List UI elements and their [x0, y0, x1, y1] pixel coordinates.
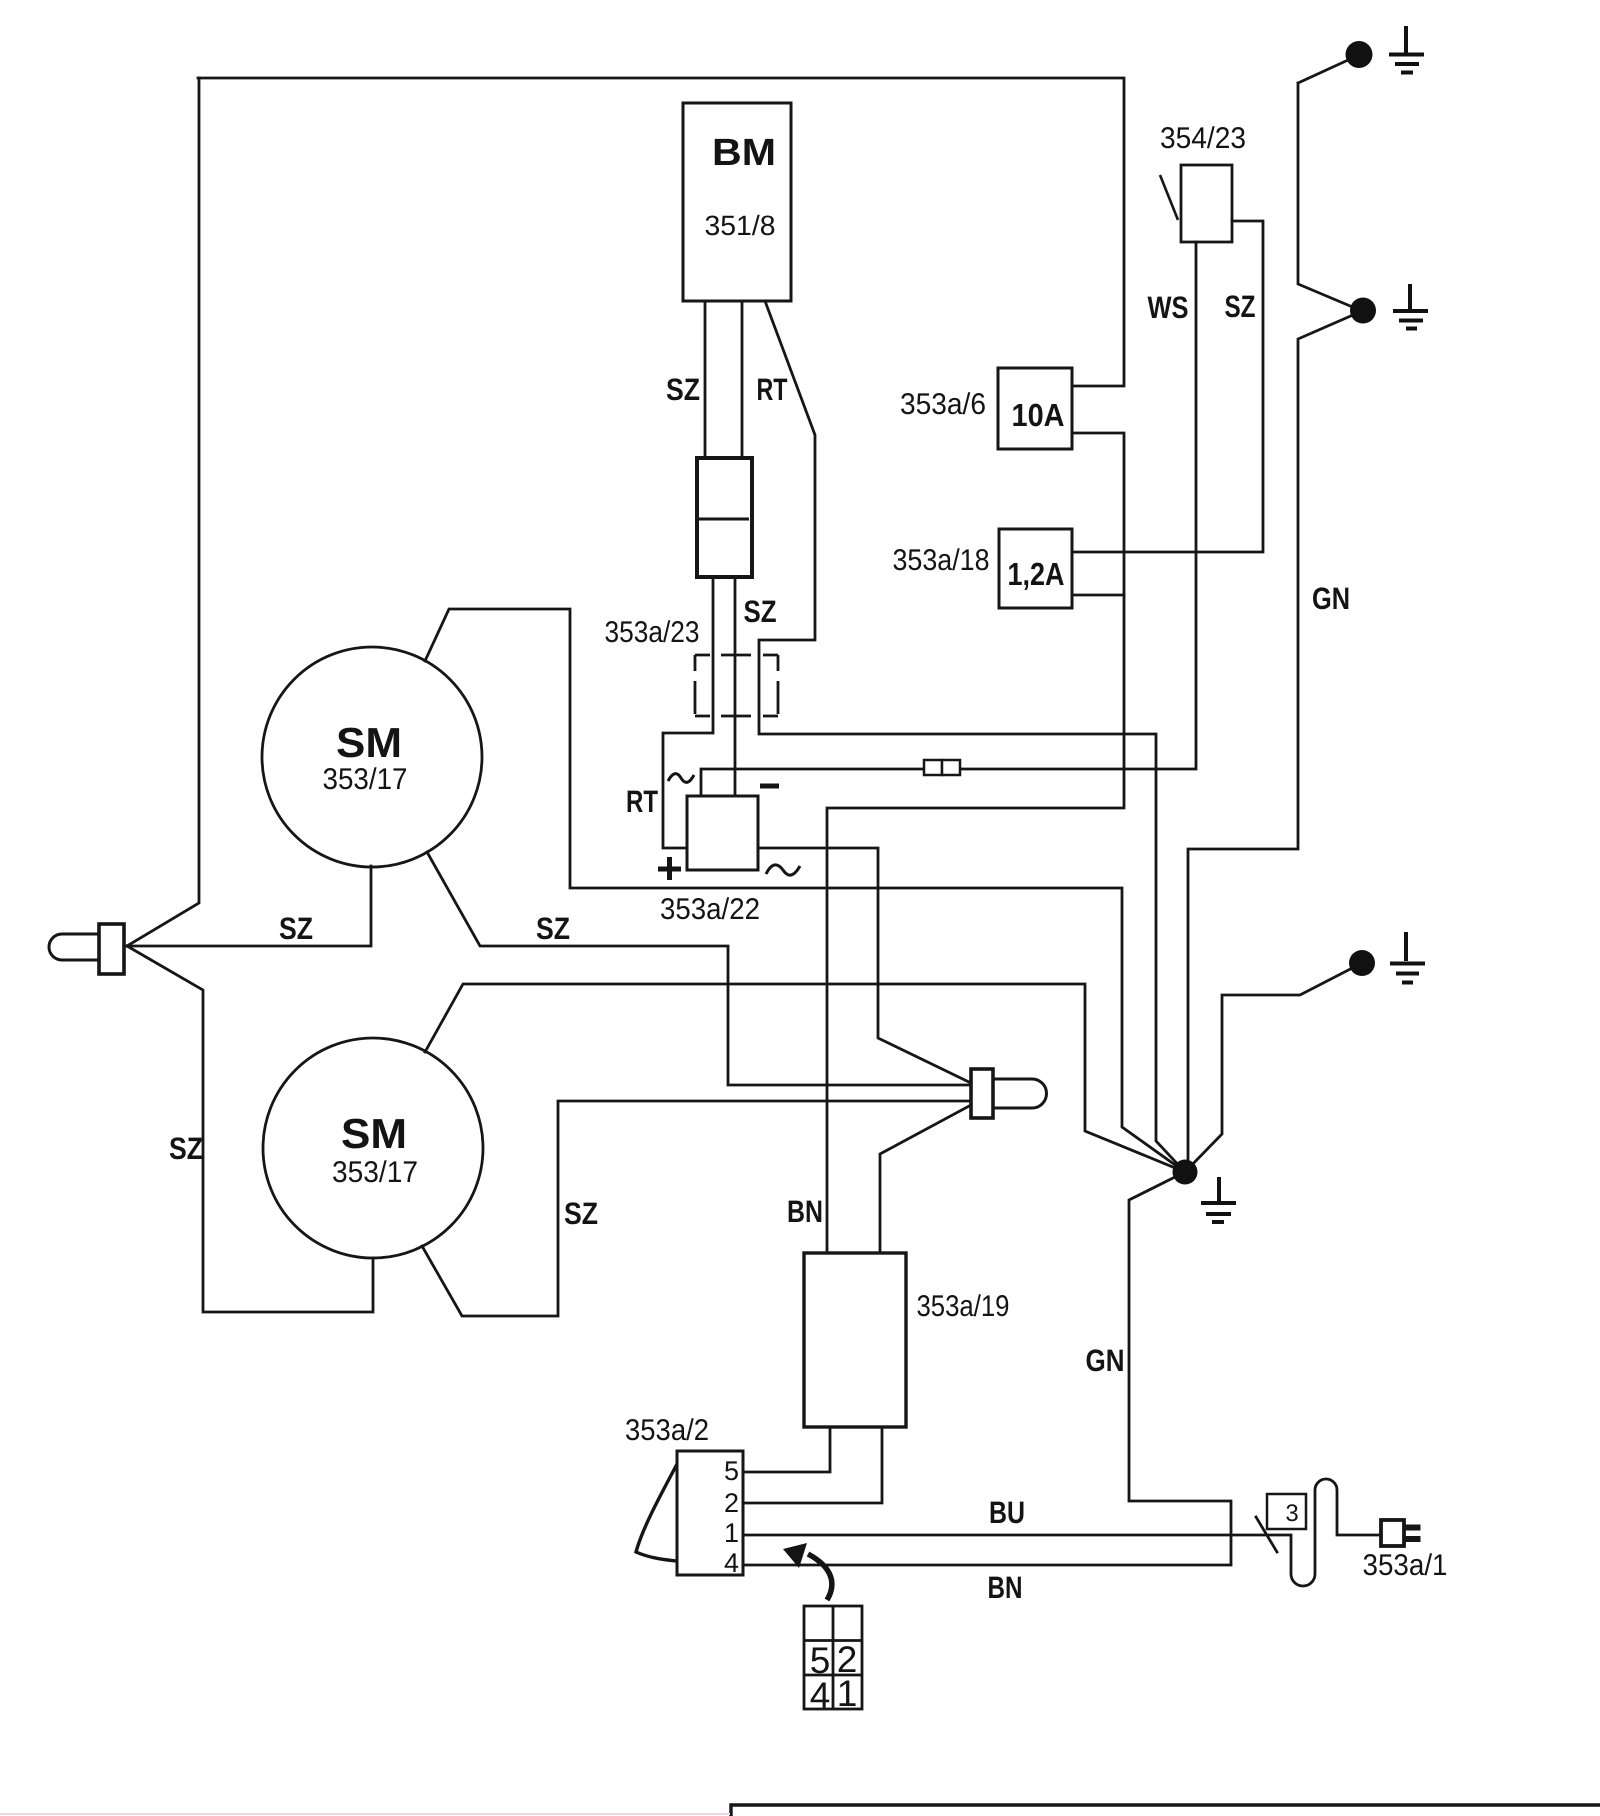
svg-text:5: 5 — [724, 1456, 739, 1486]
svg-text:353a/19: 353a/19 — [917, 1290, 1010, 1323]
svg-text:353/17: 353/17 — [332, 1156, 418, 1189]
svg-text:3: 3 — [1285, 1500, 1298, 1527]
svg-text:BM: BM — [712, 132, 776, 174]
svg-text:1,2A: 1,2A — [1008, 556, 1065, 592]
svg-text:353a/23: 353a/23 — [605, 616, 700, 649]
svg-text:SZ: SZ — [744, 594, 777, 629]
svg-text:353a/22: 353a/22 — [660, 893, 760, 926]
svg-text:353/17: 353/17 — [323, 763, 408, 796]
svg-text:353a/18: 353a/18 — [893, 544, 990, 577]
svg-text:353a/6: 353a/6 — [900, 388, 986, 421]
svg-text:SZ: SZ — [1225, 289, 1256, 324]
svg-text:SZ: SZ — [536, 911, 570, 946]
svg-text:351/8: 351/8 — [705, 210, 776, 241]
svg-text:BN: BN — [988, 1570, 1023, 1605]
svg-text:1: 1 — [724, 1518, 739, 1548]
svg-text:GN: GN — [1312, 581, 1350, 616]
svg-text:SZ: SZ — [666, 372, 700, 407]
svg-text:WS: WS — [1148, 290, 1189, 325]
svg-text:GN: GN — [1086, 1343, 1125, 1378]
svg-text:1: 1 — [837, 1673, 858, 1714]
svg-text:RT: RT — [757, 372, 788, 407]
svg-text:354/23: 354/23 — [1160, 122, 1246, 155]
svg-text:SM: SM — [341, 1110, 407, 1157]
svg-text:4: 4 — [810, 1675, 831, 1716]
svg-text:BN: BN — [787, 1194, 823, 1229]
svg-text:SZ: SZ — [279, 911, 313, 946]
svg-text:SZ: SZ — [169, 1131, 203, 1166]
svg-text:SZ: SZ — [564, 1196, 598, 1231]
svg-text:2: 2 — [724, 1488, 739, 1518]
svg-text:4: 4 — [724, 1548, 739, 1578]
svg-text:RT: RT — [626, 784, 658, 819]
svg-text:SM: SM — [336, 719, 402, 766]
svg-text:353a/1: 353a/1 — [1363, 1549, 1448, 1582]
svg-text:BU: BU — [989, 1495, 1025, 1530]
svg-text:10A: 10A — [1012, 397, 1065, 433]
svg-text:353a/2: 353a/2 — [625, 1414, 709, 1447]
